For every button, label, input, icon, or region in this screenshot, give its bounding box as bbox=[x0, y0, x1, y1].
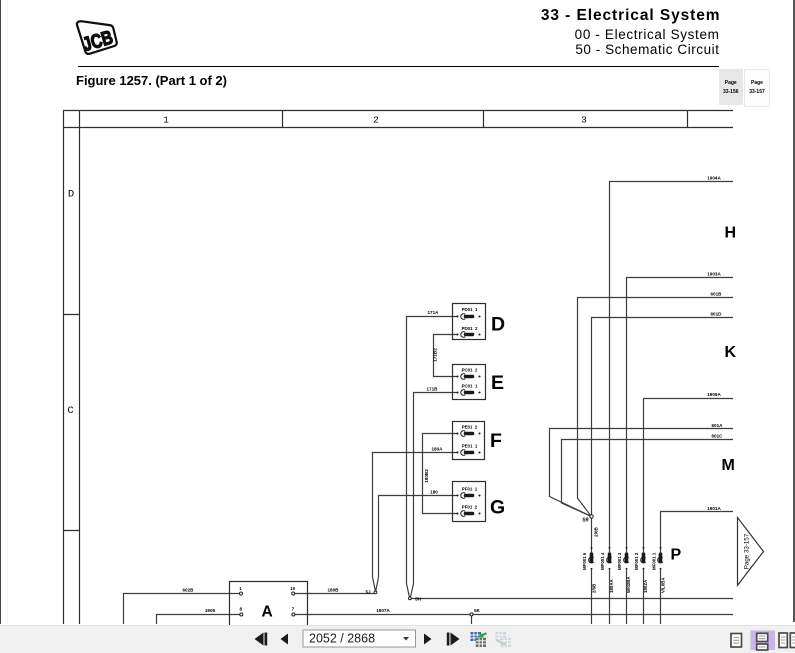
svg-text:7: 7 bbox=[292, 606, 295, 611]
svg-text:MF001 3: MF001 3 bbox=[617, 552, 622, 570]
svg-text:5J: 5J bbox=[365, 590, 371, 595]
svg-text:F: F bbox=[490, 430, 502, 452]
wire 602B bbox=[124, 594, 241, 625]
connector block E outline bbox=[453, 365, 486, 400]
svg-text:P: P bbox=[671, 547, 682, 564]
svg-text:C: C bbox=[67, 405, 73, 417]
svg-text:2/6B: 2/6B bbox=[594, 526, 599, 536]
svg-text:S9: S9 bbox=[582, 518, 588, 524]
svg-text:601B: 601B bbox=[711, 292, 723, 297]
svg-text:1905A: 1905A bbox=[707, 392, 721, 397]
wire 601D bbox=[592, 318, 734, 515]
svg-text:5K: 5K bbox=[474, 608, 481, 613]
off-page arrow 5H bbox=[407, 584, 414, 598]
pin PC01-1 of E bbox=[456, 384, 480, 396]
svg-text:8: 8 bbox=[240, 606, 243, 611]
connector block D outline bbox=[453, 304, 486, 340]
grid labels bbox=[67, 115, 587, 418]
connector MF001-1 bbox=[652, 547, 666, 593]
svg-text:5H: 5H bbox=[415, 597, 422, 602]
svg-text:M: M bbox=[722, 457, 735, 474]
wire 601C bbox=[562, 440, 734, 517]
pin 10 bbox=[292, 592, 295, 595]
component A pins bbox=[239, 586, 295, 616]
svg-text:180AA: 180AA bbox=[609, 579, 614, 593]
JCB logo bbox=[0, 0, 140, 70]
svg-text:180B2: 180B2 bbox=[424, 469, 429, 483]
connector block F outline bbox=[453, 422, 485, 460]
svg-text:180A: 180A bbox=[432, 446, 444, 451]
pin 7 bbox=[292, 613, 295, 616]
connector MF001-4 bbox=[600, 547, 614, 593]
wire 601A bbox=[550, 429, 734, 516]
wire from splice S9 to MF001-6 bbox=[591, 518, 593, 552]
connector MF001-3 bbox=[617, 547, 631, 593]
pin PD01-2 of D bbox=[456, 326, 480, 337]
svg-text:180: 180 bbox=[430, 489, 438, 494]
wire 1905A bbox=[644, 399, 734, 553]
svg-text:171B: 171B bbox=[427, 386, 439, 391]
svg-text:171A: 171A bbox=[428, 310, 440, 315]
pin PE01-2 of F bbox=[456, 425, 480, 437]
svg-text:D: D bbox=[491, 314, 505, 336]
svg-text:PE01 2: PE01 2 bbox=[462, 425, 478, 430]
wire number labels bbox=[183, 176, 724, 614]
connector MF001-2 bbox=[634, 547, 648, 593]
wire 180B bbox=[295, 593, 375, 595]
svg-text:K: K bbox=[725, 344, 737, 361]
svg-text:MF001 1: MF001 1 bbox=[652, 552, 657, 570]
wire 1904A bbox=[610, 182, 734, 553]
svg-text:2/6B: 2/6B bbox=[592, 584, 597, 593]
window left edge bbox=[0, 0, 1, 624]
svg-text:Page 33-157: Page 33-157 bbox=[744, 533, 751, 569]
svg-text:180ZA: 180ZA bbox=[643, 579, 648, 593]
svg-text:MF001 6: MF001 6 bbox=[582, 552, 587, 570]
svg-text:602B: 602B bbox=[183, 588, 195, 593]
wire 171A bbox=[407, 317, 458, 584]
off-page arrow 5J bbox=[373, 577, 379, 591]
wire link D pin2 to E pin2 bbox=[434, 335, 458, 377]
wire drop at junction 5K bbox=[471, 615, 473, 625]
header texts bbox=[418, 7, 721, 25]
pin PF01-1 of G bbox=[456, 487, 480, 499]
connector block G outline bbox=[453, 482, 486, 522]
border frame bbox=[63, 110, 733, 624]
svg-text:A: A bbox=[262, 604, 273, 621]
splice node S9 bbox=[582, 515, 593, 524]
svg-text:PD01 2: PD01 2 bbox=[462, 326, 478, 331]
svg-text:1: 1 bbox=[163, 115, 169, 126]
svg-text:PE01 1: PE01 1 bbox=[462, 444, 478, 449]
wire 1905 bbox=[157, 615, 241, 625]
svg-text:1907A: 1907A bbox=[376, 608, 390, 613]
svg-text:2052 / 2868: 2052 / 2868 bbox=[309, 631, 375, 645]
pin 1 bbox=[240, 592, 243, 595]
svg-text:1901A: 1901A bbox=[707, 506, 721, 511]
svg-text:1903A: 1903A bbox=[707, 272, 721, 277]
wire 1903A bbox=[627, 278, 734, 553]
svg-text:V/L0BA: V/L0BA bbox=[661, 577, 666, 593]
svg-text:D: D bbox=[68, 189, 74, 201]
svg-text:PD01 1: PD01 1 bbox=[462, 307, 478, 312]
wire 1901A bbox=[661, 512, 734, 553]
svg-text:MF001 2: MF001 2 bbox=[634, 552, 639, 570]
wire 171B bbox=[414, 393, 458, 584]
wire 180A bbox=[373, 453, 458, 578]
pin PC01-2 of E bbox=[456, 368, 480, 380]
faint page-left line bbox=[7, 0, 8, 624]
svg-text:3: 3 bbox=[581, 115, 587, 126]
svg-text:171B2: 171B2 bbox=[433, 348, 438, 362]
svg-text:PF01 1: PF01 1 bbox=[462, 487, 478, 492]
wire 1907A bbox=[295, 614, 733, 616]
wire 601B bbox=[578, 298, 734, 516]
junction 5J circle bbox=[374, 591, 377, 594]
svg-text:601C: 601C bbox=[712, 433, 724, 438]
svg-text:601A: 601A bbox=[712, 423, 724, 428]
svg-text:PC01 2: PC01 2 bbox=[462, 368, 478, 373]
svg-text:MF001 4: MF001 4 bbox=[600, 552, 605, 570]
pin PF01-2 of G bbox=[456, 505, 480, 517]
junction 5H circle bbox=[409, 597, 412, 600]
connector MF001-6 bbox=[582, 547, 597, 593]
svg-text:10: 10 bbox=[290, 586, 296, 591]
component A outline bbox=[230, 582, 308, 653]
pin PD01-1 of D bbox=[456, 307, 480, 319]
page tabs bbox=[719, 69, 743, 105]
junction 5K circle bbox=[470, 613, 473, 616]
svg-text:PC01 1: PC01 1 bbox=[462, 384, 478, 389]
wire link F pin2 to G pin2 bbox=[423, 434, 458, 514]
svg-text:G: G bbox=[490, 497, 505, 519]
pin PE01-1 of F bbox=[456, 444, 480, 456]
pin 8 bbox=[240, 613, 243, 616]
svg-text:H: H bbox=[725, 225, 737, 242]
svg-text:1: 1 bbox=[239, 586, 242, 591]
svg-text:180B: 180B bbox=[328, 588, 340, 593]
window right edge bbox=[793, 0, 795, 622]
svg-text:1904A: 1904A bbox=[707, 176, 721, 181]
wire 180 bbox=[379, 496, 458, 578]
connectors MF001 verticals continuing down bbox=[592, 570, 661, 624]
svg-text:2: 2 bbox=[373, 115, 379, 126]
svg-text:601D: 601D bbox=[711, 312, 723, 317]
svg-text:E: E bbox=[491, 372, 504, 394]
svg-text:PF01 2: PF01 2 bbox=[462, 505, 478, 510]
toolbar bbox=[0, 625, 795, 653]
off-page reference triangle Page 33-157 bbox=[738, 518, 764, 586]
svg-text:1905: 1905 bbox=[205, 608, 216, 613]
svg-text:W/02BA: W/02BA bbox=[626, 576, 631, 593]
wire from 5H to right edge bbox=[411, 598, 733, 600]
